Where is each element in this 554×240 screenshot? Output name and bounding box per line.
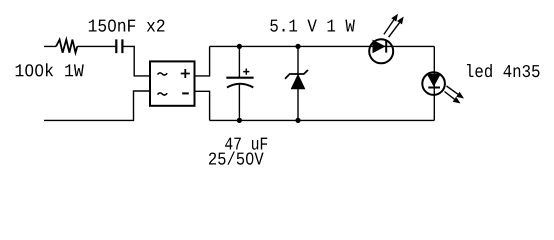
- wire: top rail: [210, 45, 435, 47]
- wire: top rail corner down to opto LED: [433, 46, 435, 120]
- wire: AC input top lead: [44, 45, 116, 47]
- node: top rail / C2 junction: [237, 44, 242, 49]
- resistor R 100k 1W: [56, 40, 77, 53]
- zener diode D1 5.1V bar: [285, 70, 308, 79]
- bridge plus symbol: [181, 69, 190, 78]
- wire: capacitor to bridge AC1: [122, 46, 150, 76]
- LED D2 triangle: [373, 41, 385, 53]
- label 5.1 V 1 W: [270, 20, 355, 32]
- bridge minus symbol: [182, 92, 189, 94]
- LED D2 light arrow 1: [384, 14, 398, 35]
- bridge AC symbol bottom (~): [158, 93, 168, 95]
- bridge rectifier U1 box: [150, 61, 195, 105]
- opto LED D3 light arrow 2: [445, 92, 461, 104]
- capacitor C2 47uF curved plate: [227, 84, 253, 88]
- label 100k 1W: [16, 63, 84, 76]
- label 150nF x2: [89, 20, 165, 32]
- label 25/50V: [209, 152, 264, 165]
- node: bottom rail / C2 junction: [237, 118, 242, 123]
- node: bottom rail / zener junction: [295, 118, 300, 123]
- capacitor C 150nF x2: [116, 39, 122, 53]
- LED D2 light arrow 2: [389, 17, 404, 38]
- node: top rail / zener junction: [295, 44, 300, 49]
- capacitor C2 plus sign: [243, 69, 249, 75]
- wire: AC input bottom lead to bridge AC2: [44, 91, 150, 120]
- capacitor C2 47uF plate: [226, 77, 253, 79]
- opto LED D3 cathode bar: [428, 87, 440, 89]
- wire: bridge + output to top rail: [195, 46, 210, 76]
- LED D2 cathode bar: [385, 40, 387, 52]
- wire: C2 top lead: [238, 46, 240, 77]
- bridge AC symbol top (~): [158, 73, 168, 75]
- opto LED D3 circle: [422, 72, 445, 95]
- opto LED D3 light arrow 1: [447, 86, 465, 99]
- wire: bottom rail: [210, 119, 435, 121]
- opto LED D3 triangle: [428, 74, 441, 86]
- label 47 uF: [225, 138, 267, 150]
- wire: bridge - output to bottom rail: [195, 91, 210, 120]
- wire: zener top lead: [297, 46, 299, 74]
- wire: zener bottom lead: [297, 89, 299, 121]
- wire: C2 bottom lead: [238, 85, 240, 121]
- zener diode D1 triangle: [291, 75, 304, 89]
- label led 4n35: [467, 64, 540, 77]
- LED D2 circle: [369, 39, 393, 63]
